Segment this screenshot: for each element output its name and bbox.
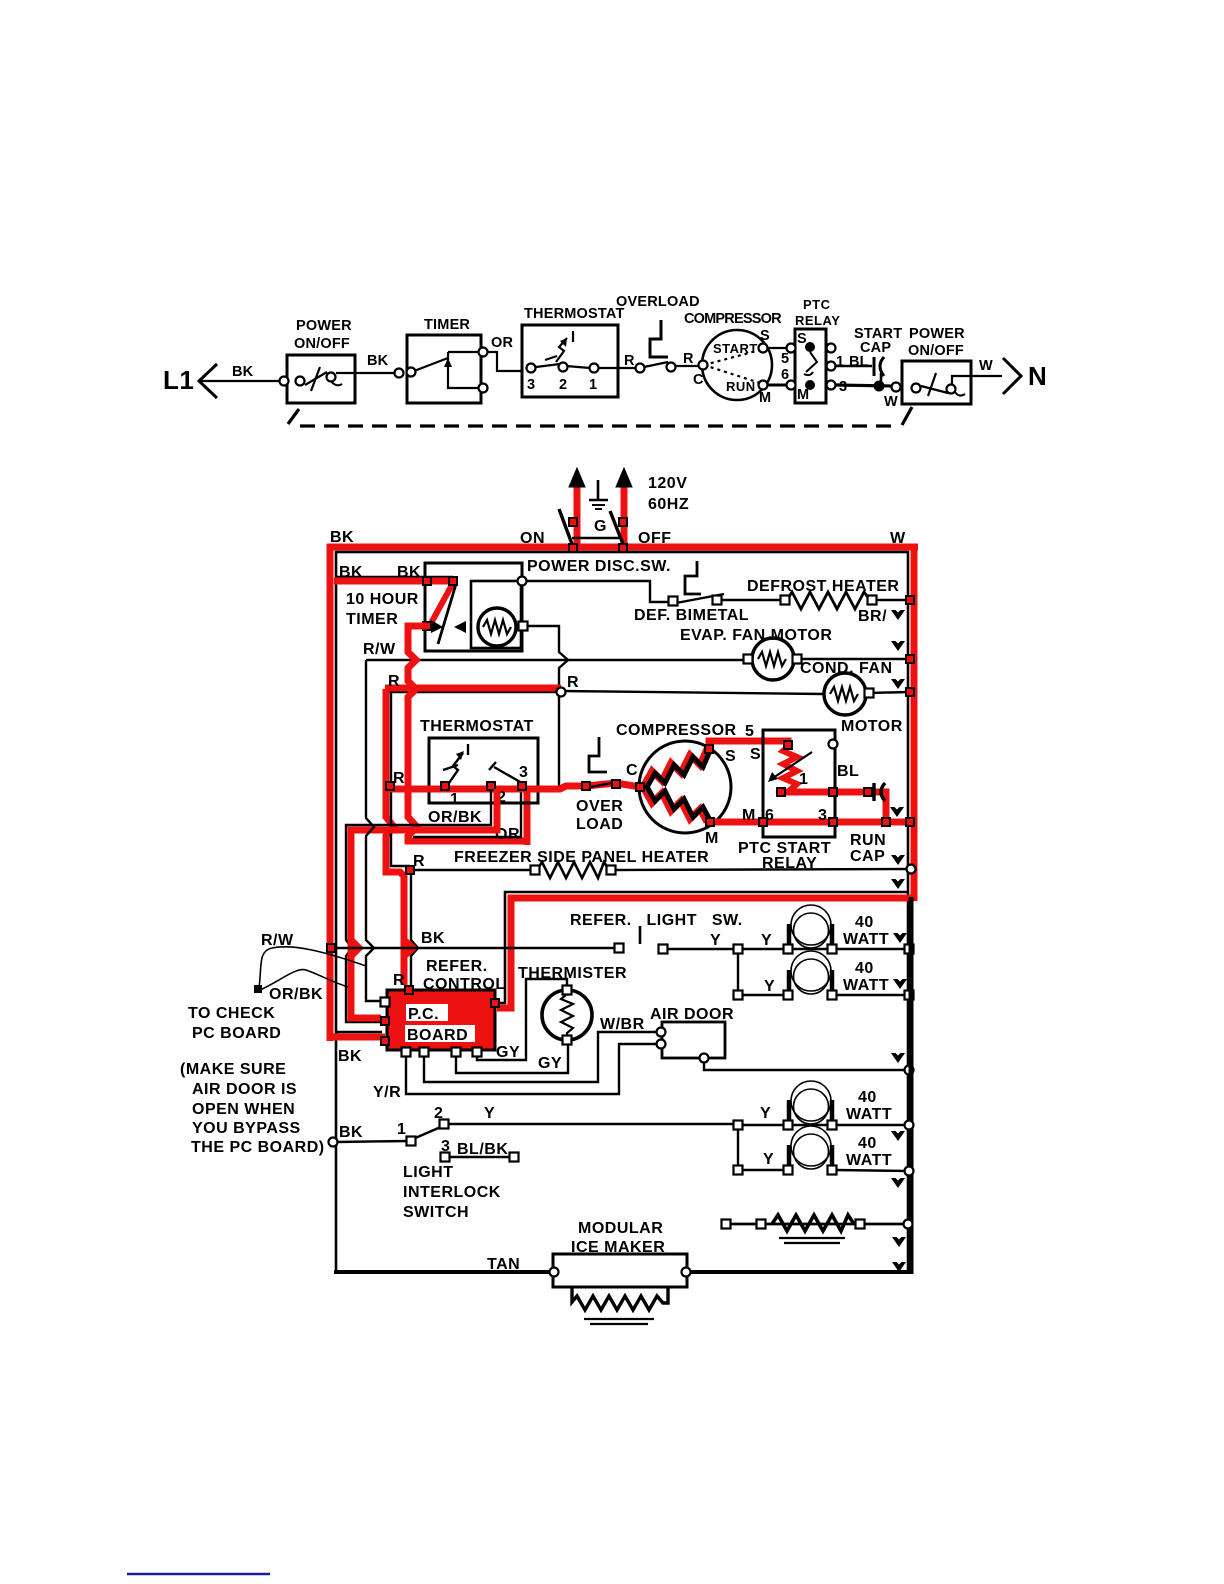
ice maker heater	[572, 1287, 668, 1310]
svg-text:BK: BK	[339, 1124, 363, 1141]
svg-text:BK: BK	[330, 529, 354, 546]
svg-text:GY: GY	[538, 1055, 562, 1072]
svg-text:L1: L1	[163, 365, 194, 395]
timer switch blade (red)	[430, 583, 453, 625]
wire evap fan to right bus	[796, 658, 910, 660]
thermostat red internal wire	[386, 786, 540, 793]
thermostat box (main)	[429, 738, 538, 803]
svg-text:G: G	[594, 518, 607, 535]
svg-text:BK: BK	[339, 564, 363, 581]
BK wire to timer (red)	[334, 578, 456, 585]
terminal circles thermostat 3,2,1	[527, 364, 536, 373]
compressor C,S,M terminals	[699, 361, 708, 370]
timer motor box	[471, 581, 521, 648]
svg-text:FREEZER SIDE PANEL HEATER: FREEZER SIDE PANEL HEATER	[454, 849, 709, 866]
svg-text:BK: BK	[397, 564, 421, 581]
svg-text:R: R	[393, 770, 405, 787]
timer switch internals	[414, 358, 448, 371]
svg-text:COMPRESSOR: COMPRESSOR	[684, 311, 782, 327]
svg-text:Y: Y	[764, 978, 775, 995]
svg-text:1: 1	[589, 377, 597, 393]
thermostat sensor arrow	[443, 744, 522, 783]
BK wire from left frame	[332, 947, 616, 949]
svg-text:R: R	[393, 972, 405, 989]
svg-text:S: S	[797, 331, 807, 347]
svg-text:CONTROL: CONTROL	[423, 976, 506, 993]
timer motor arrow	[454, 621, 466, 633]
R/W wire vertical (evap feed to PC board)	[366, 660, 380, 1001]
thermistor bottom wire (GY)	[456, 1041, 568, 1073]
svg-text:WATT: WATT	[846, 1152, 892, 1169]
svg-text:REFER.: REFER.	[426, 958, 488, 975]
svg-text:TIMER: TIMER	[346, 611, 398, 628]
mullion heater resistor	[730, 1223, 908, 1226]
svg-text:1: 1	[836, 354, 844, 370]
black core of thermostat3 return	[413, 788, 521, 837]
start cap C1	[873, 357, 876, 376]
svg-text:S: S	[760, 328, 770, 344]
red bus right edge	[911, 544, 918, 901]
freezer heater resistor	[537, 862, 609, 878]
PTC arrow	[770, 752, 812, 780]
dashed feedback line	[288, 407, 912, 426]
svg-text:C: C	[693, 372, 704, 388]
svg-text:S: S	[750, 746, 761, 763]
timer outer box	[425, 563, 522, 651]
svg-text:YOU BYPASS: YOU BYPASS	[192, 1120, 301, 1137]
svg-text:AIR DOOR IS: AIR DOOR IS	[192, 1081, 297, 1098]
thermostat blade	[536, 364, 560, 367]
svg-text:PTC: PTC	[803, 297, 831, 312]
svg-text:R: R	[388, 673, 400, 690]
svg-text:LOAD: LOAD	[576, 816, 623, 833]
svg-text:1: 1	[397, 1121, 406, 1138]
BK wire to timer (black core)	[337, 576, 453, 578]
main circuit frame (black rectangle)	[336, 552, 908, 1272]
def bimetal blade	[676, 594, 724, 603]
svg-text:LIGHT: LIGHT	[403, 1164, 454, 1181]
jogs over BK wire for OR/BK and R verticals	[351, 940, 359, 956]
red BK feed into PC board (red)	[330, 1034, 385, 1041]
svg-text:C: C	[626, 762, 638, 779]
lamp L1 40W	[791, 905, 831, 948]
svg-text:W: W	[890, 530, 906, 547]
svg-text:3: 3	[818, 807, 827, 824]
red jumper cap to M wire	[868, 792, 886, 822]
svg-text:(MAKE SURE: (MAKE SURE	[180, 1061, 286, 1078]
evap fan motor circle	[752, 638, 794, 680]
terminals top section	[280, 342, 956, 394]
ON switch blade	[559, 509, 572, 544]
svg-text:POWER: POWER	[909, 326, 965, 342]
svg-text:3: 3	[441, 1138, 450, 1155]
svg-text:Y: Y	[763, 1151, 774, 1168]
timer motor circle M	[478, 608, 516, 646]
right frame lower thick edge	[909, 897, 914, 1274]
switch SW1 blade	[305, 372, 327, 385]
svg-text:TO CHECK: TO CHECK	[188, 1005, 275, 1022]
refer loop black wire	[497, 892, 908, 1003]
wire to cond fan	[561, 691, 824, 694]
svg-text:DEF. BIMETAL: DEF. BIMETAL	[634, 607, 749, 624]
svg-text:BL: BL	[837, 763, 859, 780]
svg-text:R/W: R/W	[363, 641, 396, 658]
run cap symbol	[872, 783, 875, 801]
svg-text:P.C.: P.C.	[408, 1006, 439, 1023]
wire defrost heater to right bus	[872, 599, 910, 601]
PC board terminals	[404, 985, 414, 995]
top section labels	[163, 294, 1047, 410]
svg-text:RUN: RUN	[726, 379, 756, 394]
svg-text:40: 40	[855, 914, 874, 931]
svg-text:M: M	[759, 390, 771, 406]
power disc switch link	[572, 537, 620, 540]
svg-text:Y: Y	[760, 1105, 771, 1122]
red BK feed into PC board (black core)	[337, 1031, 382, 1033]
thermostat box (top)	[522, 325, 618, 397]
svg-text:1: 1	[799, 771, 808, 788]
svg-text:BOARD: BOARD	[407, 1027, 468, 1044]
M wire to PTC and right bus	[710, 819, 914, 826]
svg-text:BL/BK: BL/BK	[457, 1141, 508, 1158]
wire thermostat to overload	[599, 367, 636, 369]
ON arrowhead	[569, 468, 585, 487]
junction terminal	[415, 869, 533, 871]
PTC relay box (top)	[795, 329, 826, 403]
svg-text:WATT: WATT	[843, 931, 889, 948]
120V supply OFF stub	[621, 484, 628, 551]
wire PTC pin1 BL to start cap	[835, 365, 872, 368]
wire timer to thermostat (OR)	[487, 352, 522, 371]
svg-text:MOTOR: MOTOR	[841, 718, 903, 735]
svg-text:BL: BL	[849, 354, 869, 370]
thermostat terminals 1,2,3	[440, 781, 450, 791]
lamp L3 40 WATT	[791, 1081, 831, 1124]
wire M to PTC relay	[767, 384, 792, 387]
svg-text:R: R	[567, 674, 579, 691]
timer box	[407, 335, 481, 403]
svg-text:ON/OFF: ON/OFF	[294, 336, 350, 352]
120V supply ON stub	[574, 484, 581, 549]
wire S to PTC relay	[767, 347, 792, 349]
svg-text:R: R	[624, 353, 635, 369]
svg-text:5: 5	[781, 351, 789, 367]
svg-text:ON: ON	[520, 530, 545, 547]
svg-text:1: 1	[450, 791, 459, 808]
svg-text:ICE MAKER: ICE MAKER	[571, 1239, 665, 1256]
svg-text:PC BOARD: PC BOARD	[192, 1025, 281, 1042]
svg-text:OFF: OFF	[638, 530, 672, 547]
interlock blade 1-2	[413, 1126, 443, 1139]
svg-text:OPEN WHEN: OPEN WHEN	[192, 1101, 295, 1118]
compressor dashed windings	[704, 350, 760, 365]
wire SW2 to N	[971, 375, 1002, 377]
wire terminal 2 to lamp row 3	[448, 1123, 734, 1125]
svg-text:6: 6	[781, 367, 789, 383]
wire SW1 to timer	[336, 372, 394, 374]
svg-text:3: 3	[527, 377, 535, 393]
lamp L2 40 WATT	[738, 953, 786, 995]
wire L1 to power switch	[201, 380, 282, 382]
svg-text:40: 40	[855, 960, 874, 977]
ice maker heater ground lines	[584, 1318, 654, 1320]
PTC start relay box	[763, 730, 835, 837]
svg-text:Y: Y	[761, 932, 772, 949]
svg-text:R: R	[683, 351, 694, 367]
wire from left frame	[336, 1141, 408, 1142]
node N arrow	[1003, 358, 1021, 394]
svg-text:2: 2	[434, 1105, 443, 1122]
red bus left edge	[327, 544, 334, 1041]
svg-text:W: W	[979, 358, 993, 374]
lamp row 1 wire	[742, 948, 908, 950]
svg-text:COMPRESSOR: COMPRESSOR	[616, 722, 737, 739]
overload symbol (top)	[650, 320, 668, 357]
svg-text:S: S	[725, 748, 736, 765]
W/BR wire	[424, 1032, 658, 1082]
svg-text:BK: BK	[338, 1048, 362, 1065]
def bimetal symbol	[685, 561, 701, 594]
PTC resistor (red zigzag vertical)	[783, 745, 797, 792]
terminals compressor/PTC	[635, 782, 645, 792]
OFF arrowhead	[616, 468, 632, 487]
svg-text:THE PC BOARD): THE PC BOARD)	[191, 1139, 325, 1156]
svg-text:RUN: RUN	[850, 832, 886, 849]
R wire (red)	[385, 685, 561, 692]
svg-text:N: N	[1028, 361, 1047, 391]
svg-text:10 HOUR: 10 HOUR	[346, 591, 419, 608]
P.C. board box	[387, 990, 495, 1050]
power on/off switch SW1 box	[287, 355, 355, 403]
timer switch blade (black)	[438, 584, 456, 644]
svg-text:EVAP. FAN MOTOR: EVAP. FAN MOTOR	[680, 627, 832, 644]
svg-text:M: M	[705, 830, 719, 847]
svg-text:WATT: WATT	[846, 1106, 892, 1123]
timer blade arrowhead	[431, 620, 443, 633]
svg-text:ON/OFF: ON/OFF	[908, 343, 964, 359]
OFF switch blade	[610, 511, 623, 544]
svg-text:DEFROST HEATER: DEFROST HEATER	[747, 578, 899, 595]
defrost heater resistor	[787, 592, 870, 609]
SW2 terminals	[912, 384, 921, 393]
svg-text:REFER. LIGHT SW.: REFER. LIGHT SW.	[570, 912, 743, 929]
svg-text:SWITCH: SWITCH	[403, 1204, 469, 1221]
svg-text:RELAY: RELAY	[795, 313, 840, 328]
thermostat sensor arrow	[556, 338, 567, 362]
svg-text:THERMOSTAT: THERMOSTAT	[420, 718, 534, 735]
svg-text:POWER DISC.SW.: POWER DISC.SW.	[527, 558, 671, 575]
svg-text:2: 2	[559, 377, 567, 393]
PTC terminals	[787, 344, 796, 353]
refer light switch	[639, 926, 642, 944]
svg-text:3: 3	[839, 379, 847, 395]
svg-text:M: M	[742, 807, 756, 824]
svg-text:R: R	[413, 853, 425, 870]
OR/BK path (red)	[351, 789, 497, 1018]
supply terminals	[568, 517, 578, 527]
terminal circles timer	[395, 369, 404, 378]
timer terminals	[422, 576, 432, 586]
svg-text:MODULAR: MODULAR	[578, 1220, 663, 1237]
svg-text:BK: BK	[421, 930, 445, 947]
svg-text:BK: BK	[232, 364, 254, 380]
svg-text:3: 3	[519, 764, 528, 781]
svg-text:BR/: BR/	[858, 608, 887, 625]
junction dot start cap	[874, 381, 885, 392]
lamp L4 40 WATT	[738, 1129, 786, 1170]
svg-text:TAN: TAN	[487, 1256, 520, 1273]
wire cond fan to right bus	[868, 692, 910, 693]
terminal circles overload	[636, 364, 645, 373]
OR/BK path from terminal 2 (black)	[346, 789, 491, 1022]
red D path from timer to thermostat 3	[408, 626, 527, 841]
refer loop red highlight	[497, 898, 914, 1008]
svg-text:BK: BK	[367, 353, 389, 369]
bottom blue rule	[127, 1573, 270, 1575]
svg-text:40: 40	[858, 1089, 877, 1106]
svg-text:POWER: POWER	[296, 318, 352, 334]
PTC internal blade	[806, 352, 817, 372]
svg-text:Y/R: Y/R	[373, 1084, 401, 1101]
evap fan wire	[366, 659, 743, 661]
overload symbol (main)	[589, 737, 607, 772]
svg-text:OR/BK: OR/BK	[428, 809, 482, 826]
svg-text:WATT: WATT	[843, 977, 889, 994]
svg-text:CAP: CAP	[850, 848, 885, 865]
wire to right bus	[612, 869, 908, 870]
R black core vertical	[391, 692, 410, 866]
wire timer motor terminal down to R wire	[528, 626, 568, 786]
thermistor top wire (GY)	[477, 979, 567, 1060]
svg-text:OVERLOAD: OVERLOAD	[616, 294, 700, 310]
svg-text:AIR DOOR: AIR DOOR	[650, 1006, 734, 1023]
svg-text:M: M	[797, 387, 809, 403]
svg-text:5: 5	[745, 723, 754, 740]
power on/off switch SW2 box	[902, 361, 971, 404]
Y/R wire	[406, 1044, 658, 1094]
terminal circles power SW1	[280, 377, 289, 386]
svg-text:120V: 120V	[648, 475, 687, 492]
svg-text:OVER: OVER	[576, 798, 623, 815]
svg-text:W: W	[884, 394, 898, 410]
wire timer motor to def bimetal	[527, 581, 671, 602]
compressor circle (main)	[639, 741, 731, 833]
wire def bimetal to defrost heater	[720, 599, 784, 601]
compressor winding to S (red+black zigzag)	[643, 749, 707, 787]
svg-text:W/BR: W/BR	[600, 1016, 645, 1033]
red bus top	[327, 544, 918, 551]
svg-text:COND. FAN: COND. FAN	[800, 660, 893, 677]
svg-text:Y: Y	[484, 1105, 495, 1122]
svg-text:60HZ: 60HZ	[648, 496, 689, 513]
svg-text:OR: OR	[491, 335, 513, 351]
cond fan motor circle	[824, 673, 866, 715]
svg-text:OR/BK: OR/BK	[269, 986, 323, 1003]
air door bottom wire to right bus	[704, 1058, 908, 1070]
svg-text:Y: Y	[710, 932, 721, 949]
thermostat blade 2-3	[494, 767, 522, 783]
svg-text:TIMER: TIMER	[424, 317, 470, 333]
svg-text:CAP: CAP	[860, 340, 891, 356]
svg-text:START: START	[713, 341, 758, 356]
node L1 arrow	[199, 364, 217, 398]
red wire thermostat to overload to compressor C	[538, 783, 640, 789]
SW2 blade	[921, 386, 948, 393]
wire PTC pin3 to junction	[835, 385, 894, 386]
compressor winding to M (red+black zigzag)	[643, 787, 707, 822]
svg-text:INTERLOCK: INTERLOCK	[403, 1184, 501, 1201]
overload blade	[644, 362, 668, 367]
R red vertical	[386, 689, 404, 985]
S wire to PTC	[709, 741, 788, 749]
PTC output wire to run cap	[781, 789, 871, 796]
terminal 3 stub BL/BK	[449, 1156, 512, 1158]
R wire horizontal (black core)	[388, 691, 561, 693]
svg-text:6: 6	[765, 807, 774, 824]
svg-text:40: 40	[858, 1135, 877, 1152]
svg-text:GY: GY	[496, 1044, 520, 1061]
bottom frame thick edge	[334, 1270, 912, 1274]
ground symbol G	[597, 480, 600, 499]
svg-text:THERMOSTAT: THERMOSTAT	[524, 306, 625, 322]
compressor circle (top)	[702, 330, 772, 400]
